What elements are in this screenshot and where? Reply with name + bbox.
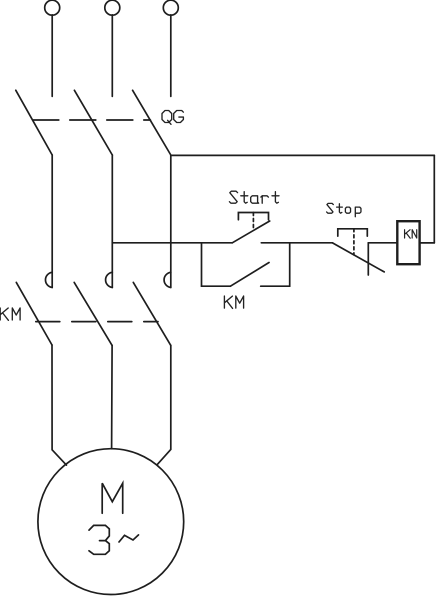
wire right vertical down to KN bbox=[433, 155, 435, 243]
wire L2 to QG bbox=[111, 15, 113, 97]
label Start bbox=[229, 191, 279, 203]
wire QG pole 1 to KM bbox=[51, 155, 53, 288]
motor letter M bbox=[102, 483, 123, 513]
wire L1 to QG bbox=[51, 15, 53, 97]
Stop pushbutton actuator (dashed) bbox=[353, 229, 355, 255]
terminal L3 bbox=[163, 0, 178, 15]
Stop NC contact right terminal bbox=[367, 243, 369, 275]
wire KM pole 2 to motor bbox=[111, 345, 114, 448]
Start NO contact blade bbox=[232, 221, 269, 243]
label KN (coil) bbox=[405, 230, 417, 238]
wire KM aux branch left vertical bbox=[201, 243, 203, 286]
wire KM aux bottom left bbox=[202, 285, 231, 287]
disconnect QG pole 3 blade bbox=[133, 90, 171, 155]
motor text ~ bbox=[119, 535, 139, 542]
wire QG pole 3 to KM bbox=[170, 155, 172, 287]
wire KM aux branch right vertical bbox=[289, 243, 291, 286]
contactor KM pole 3 blade bbox=[133, 282, 171, 345]
KM mechanical link (dashed) bbox=[36, 321, 158, 323]
KM auxiliary NO contact blade bbox=[230, 263, 269, 287]
contactor KM pole 2 fixed contact arc bbox=[106, 272, 113, 287]
wire QG pole 2 to KM bbox=[111, 155, 113, 288]
wire Start to Stop bbox=[261, 242, 332, 244]
terminal L2 bbox=[105, 0, 120, 15]
terminal L1 bbox=[45, 0, 60, 15]
contactor KM pole 1 blade bbox=[16, 282, 52, 345]
wire QG pole 3 to control circuit (top line) bbox=[171, 154, 435, 156]
disconnect QG pole 2 blade bbox=[74, 90, 112, 155]
motor M circle bbox=[38, 449, 184, 595]
Start pushbutton actuator (dashed) bbox=[252, 213, 254, 230]
Stop NC contact blade bbox=[333, 243, 385, 272]
label Stop bbox=[327, 203, 361, 216]
label QG bbox=[162, 111, 183, 125]
wire KM aux bottom right bbox=[261, 285, 290, 287]
label KM (main contactor) bbox=[0, 308, 20, 320]
motor text 3 bbox=[89, 525, 109, 554]
disconnect QG pole 1 blade bbox=[16, 90, 52, 155]
Start pushbutton cap bbox=[238, 213, 268, 220]
Stop pushbutton cap bbox=[338, 229, 368, 236]
contactor KM pole 3 fixed contact arc bbox=[164, 272, 171, 287]
wire L3 to QG bbox=[170, 15, 172, 97]
wire KN to right vertical bbox=[420, 242, 435, 244]
contactor KM pole 2 blade bbox=[74, 282, 112, 345]
wire Stop to KN coil bbox=[368, 242, 397, 244]
label KM (aux contact) bbox=[224, 296, 243, 308]
contactor KM pole 1 fixed contact arc bbox=[45, 272, 52, 287]
wire KM pole 3 to motor bbox=[157, 345, 171, 465]
relay coil KN box bbox=[397, 221, 419, 264]
wire KM pole 1 to motor bbox=[52, 345, 66, 465]
QG mechanical link (dashed) bbox=[33, 119, 151, 121]
wire control line tap from pole 2 to Start bbox=[112, 242, 232, 244]
